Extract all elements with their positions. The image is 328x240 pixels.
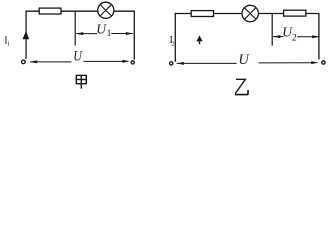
- terminal (circuit 乙, right): [322, 61, 325, 64]
- current arrow I2 (floating, pointing up): [196, 36, 202, 45]
- resistor (circuit 乙, right of lamp): [284, 10, 306, 16]
- svg-text:2: 2: [292, 33, 297, 43]
- svg-text:1: 1: [107, 29, 112, 39]
- lamp (circuit 乙, circle with X): [242, 5, 258, 21]
- label U2: [282, 25, 297, 44]
- dimension arrows U1 (between middle wire and right wire): [76, 32, 134, 35]
- dimension arrows U (circuit 乙 bottom): [176, 61, 318, 65]
- svg-text:U: U: [238, 52, 250, 68]
- label 乙 (drawn strokes): [235, 79, 248, 94]
- wire: circuit 甲 left vertical wire: [25, 11, 27, 59]
- svg-text:2: 2: [171, 41, 174, 48]
- terminal (circuit 甲, right): [131, 61, 134, 64]
- current arrow I1 (on left wire, pointing up): [23, 31, 30, 39]
- label 甲 (drawn strokes): [76, 75, 86, 88]
- wire: circuit 乙 right vertical wire: [318, 13, 320, 59]
- wire: circuit 乙 top wire: [175, 13, 319, 15]
- label I1: [4, 36, 10, 48]
- wire: circuit 乙 middle junction wire: [271, 14, 273, 46]
- terminal (circuit 乙, left): [170, 62, 173, 65]
- dimension arrows U2 (between middle wire and right wire): [273, 35, 320, 38]
- dimension arrows U (circuit 甲 bottom): [30, 60, 130, 64]
- resistor (circuit 甲): [39, 8, 61, 14]
- svg-text:1: 1: [7, 41, 10, 48]
- wire: circuit 甲 right vertical wire: [133, 11, 135, 60]
- label I2: [170, 35, 175, 48]
- svg-text:U: U: [73, 48, 83, 64]
- wire: circuit 乙 left vertical wire: [174, 13, 176, 62]
- terminal (circuit 甲, left): [22, 60, 26, 64]
- wire: circuit 甲 middle junction wire: [74, 11, 76, 45]
- wire: circuit 甲 top wire: [26, 10, 135, 12]
- lamp (circuit 甲, circle with X): [98, 2, 114, 18]
- resistor (circuit 乙, left of lamp): [191, 11, 213, 17]
- label U1: [96, 22, 111, 39]
